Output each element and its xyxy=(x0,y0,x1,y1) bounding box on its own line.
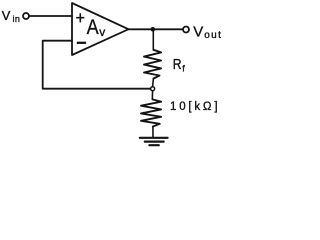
wire Vin to op-amp + input xyxy=(30,15,72,17)
wire node down to R2 xyxy=(151,91,153,100)
label + input pin xyxy=(76,13,84,22)
wire R2 to ground xyxy=(152,127,154,137)
svg-text:R: R xyxy=(173,56,182,72)
resistor R2 10k xyxy=(141,100,161,127)
node feedback junction xyxy=(151,87,155,91)
svg-text:in: in xyxy=(13,14,21,24)
node Vout terminal xyxy=(183,27,189,33)
label - input pin xyxy=(77,42,86,44)
svg-text:out: out xyxy=(204,30,222,41)
svg-text:A: A xyxy=(87,16,100,40)
wire feedback loop xyxy=(43,41,151,89)
node Vin terminal xyxy=(23,13,29,19)
resistor Rf xyxy=(144,50,161,79)
svg-text:V: V xyxy=(2,8,11,23)
wire Rf to node xyxy=(152,79,155,87)
svg-text:10[kΩ]: 10[kΩ] xyxy=(170,101,220,113)
wire op-amp output to Vout xyxy=(129,28,183,30)
node junction dot on output xyxy=(151,27,156,32)
svg-text:v: v xyxy=(99,25,105,39)
ground xyxy=(140,137,168,139)
svg-text:V: V xyxy=(193,23,203,40)
wire junction down to Rf xyxy=(152,29,154,50)
op-amp U1 triangle xyxy=(72,3,129,55)
